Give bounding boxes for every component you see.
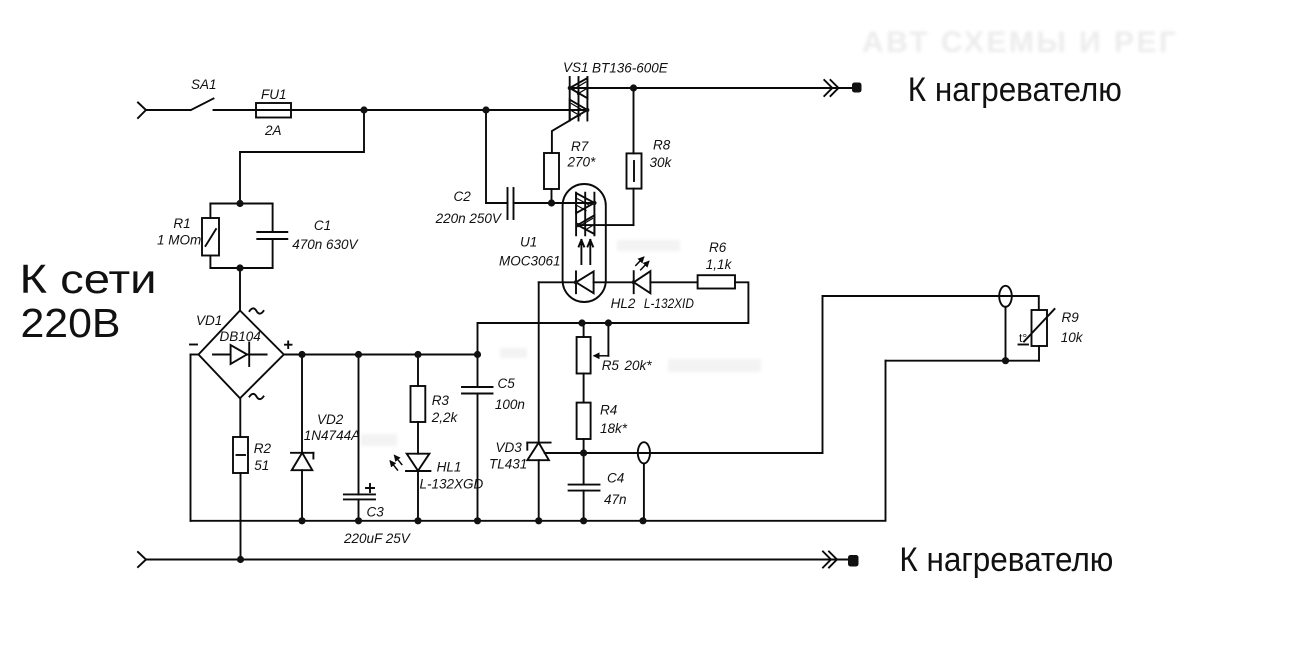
svg-text:VS1: VS1: [563, 60, 589, 75]
svg-text:20k*: 20k*: [624, 358, 653, 373]
svg-text:R9: R9: [1062, 310, 1080, 325]
svg-text:R7: R7: [571, 139, 589, 154]
svg-text:TL431: TL431: [489, 457, 527, 472]
svg-text:HL2: HL2: [611, 296, 636, 311]
svg-text:47n: 47n: [604, 492, 627, 507]
svg-text:VD2: VD2: [317, 412, 344, 427]
svg-text:FU1: FU1: [261, 87, 287, 102]
svg-text:270*: 270*: [567, 154, 597, 169]
svg-text:VD3: VD3: [496, 440, 523, 455]
svg-text:К нагревателю: К нагревателю: [899, 541, 1113, 579]
svg-text:2,2k: 2,2k: [431, 410, 459, 425]
svg-text:U1: U1: [520, 235, 537, 250]
svg-text:2A: 2A: [264, 123, 282, 138]
svg-text:R8: R8: [653, 138, 671, 153]
svg-text:1 MOm: 1 MOm: [157, 233, 201, 248]
svg-text:1,1k: 1,1k: [706, 257, 733, 272]
svg-text:R5: R5: [602, 358, 620, 373]
svg-text:C2: C2: [454, 189, 472, 204]
svg-text:АВТ СХЕМЫ И РЕГ: АВТ СХЕМЫ И РЕГ: [862, 26, 1179, 59]
svg-text:220uF 25V: 220uF 25V: [343, 531, 412, 546]
svg-text:VD1: VD1: [196, 313, 222, 328]
svg-text:К нагревателю: К нагревателю: [908, 71, 1122, 109]
svg-text:DB104: DB104: [220, 329, 261, 344]
svg-text:HL1: HL1: [437, 460, 462, 475]
svg-text:220n 250V: 220n 250V: [435, 211, 503, 226]
svg-text:L-132XID: L-132XID: [644, 296, 694, 311]
svg-text:1N4744A: 1N4744A: [304, 428, 360, 443]
svg-text:R2: R2: [254, 441, 272, 456]
svg-text:MOC3061: MOC3061: [499, 254, 561, 269]
svg-text:10k: 10k: [1061, 330, 1084, 345]
svg-text:К сети: К сети: [20, 256, 157, 302]
svg-text:C3: C3: [367, 505, 385, 520]
svg-text:51: 51: [254, 458, 269, 473]
svg-text:R3: R3: [432, 393, 450, 408]
svg-text:470n 630V: 470n 630V: [292, 237, 359, 252]
svg-text:220В: 220В: [21, 300, 121, 346]
svg-text:100n: 100n: [495, 397, 525, 412]
svg-text:R1: R1: [173, 216, 190, 231]
svg-text:BT136-600E: BT136-600E: [592, 61, 669, 76]
svg-text:R4: R4: [600, 403, 617, 418]
svg-text:L-132XGD: L-132XGD: [420, 477, 484, 492]
svg-text:SA1: SA1: [191, 77, 217, 92]
svg-text:30k: 30k: [650, 155, 673, 170]
svg-text:18k*: 18k*: [600, 421, 628, 436]
svg-text:C1: C1: [314, 218, 331, 233]
svg-text:C4: C4: [607, 471, 624, 486]
svg-text:t°: t°: [1019, 331, 1027, 345]
svg-text:C5: C5: [498, 376, 516, 391]
svg-text:R6: R6: [709, 240, 727, 255]
